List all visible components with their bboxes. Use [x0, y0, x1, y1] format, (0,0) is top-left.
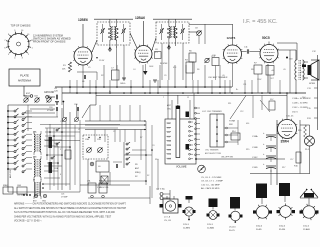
svg-text:27 MMF: 27 MMF [61, 197, 68, 199]
svg-text:C14B: C14B [252, 147, 258, 149]
svg-text:C10: 10 - 160 MMF: C10: 10 - 160 MMF [201, 184, 221, 186]
svg-text:OSC ANT TRIMMER: OSC ANT TRIMMER [208, 76, 228, 79]
svg-text:C9: C9 [164, 75, 166, 77]
svg-text:7: 7 [163, 97, 164, 99]
svg-text:ALL SWITCH SECTIONS ARE SHOWN: ALL SWITCH SECTIONS ARE SHOWN IN THE EXT… [14, 207, 127, 210]
svg-text:C1: C1 [60, 121, 62, 123]
svg-text:TOP OF CHASSIS: TOP OF CHASSIS [11, 25, 31, 28]
svg-text:I.F. = 455 KC.: I.F. = 455 KC. [243, 19, 278, 25]
svg-text:C14A: C14A [252, 135, 258, 138]
svg-text:35-W4: 35-W4 [279, 229, 286, 231]
svg-text:L2: L2 [78, 129, 80, 131]
svg-text:6: 6 [60, 174, 61, 176]
svg-text:TONE: TONE [229, 121, 236, 123]
svg-text:12BE6: 12BE6 [78, 18, 88, 22]
svg-text:LOC OSC TRIMMER: LOC OSC TRIMMER [202, 111, 222, 113]
svg-text:VOLTAGE—117 V. 50-60 ~.: VOLTAGE—117 V. 50-60 ~. [14, 220, 43, 223]
svg-text:ANT OSC: ANT OSC [9, 169, 12, 178]
svg-text:+40: +40 [271, 70, 274, 72]
svg-text:R6: R6 [197, 69, 199, 71]
svg-text:1400: 1400 [167, 150, 171, 152]
svg-text:C5: C5 [88, 67, 90, 69]
svg-text:12: 12 [187, 97, 189, 99]
svg-text:R14: R14 [232, 131, 235, 133]
svg-text:FROM FRONT OF CHASSIS: FROM FRONT OF CHASSIS [33, 41, 66, 44]
svg-text:C14B + 30 MFD: C14B + 30 MFD [292, 103, 308, 105]
svg-text:540: 540 [167, 123, 170, 125]
svg-text:50C5: 50C5 [262, 36, 270, 40]
svg-text:1600: 1600 [167, 158, 171, 160]
svg-text:C14C + 20 MFD: C14C + 20 MFD [292, 107, 308, 109]
svg-text:R2: R2 [101, 75, 103, 77]
svg-text:OSC: OSC [167, 108, 172, 110]
svg-text:ON-OFF SW: ON-OFF SW [221, 157, 233, 159]
svg-text:ANT SHUNT TRIM: ANT SHUNT TRIM [205, 152, 221, 155]
svg-text:50-B5: 50-B5 [256, 229, 262, 231]
svg-text:100K: 100K [149, 66, 154, 68]
svg-text:650: 650 [167, 128, 170, 130]
svg-text:1/2-L5: 1/2-L5 [207, 224, 214, 226]
svg-text:35W4: 35W4 [281, 140, 290, 144]
svg-text:1.5: 1.5 [155, 52, 158, 54]
svg-text:12AT6: 12AT6 [227, 36, 236, 40]
svg-text:C14D: C14D [252, 167, 258, 169]
svg-text:R15: R15 [298, 130, 301, 132]
svg-text:150 V.: 150 V. [292, 112, 299, 114]
svg-text:1 MEG VOL: 1 MEG VOL [97, 187, 110, 189]
svg-text:1/2-L6: 1/2-L6 [256, 226, 263, 228]
svg-text:C5, C6: C5, C6 [164, 220, 172, 222]
svg-text:47 MMF: 47 MMF [47, 110, 54, 112]
svg-text:OHMS PER VOLT METER, WITH S1: OHMS PER VOLT METER, WITH S1 IN A BAND P… [14, 215, 112, 218]
svg-text:C11: C11 [243, 84, 246, 86]
svg-text:ANTENNA: ANTENNA [18, 79, 31, 83]
svg-text:120V: 120V [257, 79, 262, 81]
svg-text:S1 IS IN THE PHONOGRAPH POSITI: S1 IS IN THE PHONOGRAPH POSITION. ALL DC… [14, 211, 116, 214]
svg-text:PLATE: PLATE [20, 74, 29, 78]
svg-text:C5, C6: 5 - 125 MMF: C5, C6: 5 - 125 MMF [201, 177, 222, 179]
svg-text:1250: 1250 [167, 145, 171, 147]
svg-text:1/2-L5: 1/2-L5 [183, 224, 190, 226]
svg-text:117V: 117V [211, 56, 216, 58]
svg-text:5: 5 [60, 149, 61, 151]
svg-text:ARROWS ——— ON POTENTIOMETERS A: ARROWS ——— ON POTENTIOMETERS AND SWITCHE… [14, 203, 127, 206]
svg-text:OSC TRIMMER: OSC TRIMMER [205, 150, 219, 152]
svg-text:C18: C18 [289, 59, 292, 61]
svg-text:R17: R17 [282, 167, 285, 169]
svg-text:R11: R11 [228, 103, 231, 105]
svg-text:R10: R10 [155, 159, 158, 161]
svg-text:800: 800 [167, 132, 170, 134]
svg-text:C3: C3 [152, 145, 154, 147]
svg-text:12-BA6: 12-BA6 [207, 226, 215, 229]
svg-text:R8: R8 [251, 69, 253, 71]
svg-text:50-C5: 50-C5 [229, 230, 236, 232]
svg-text:R15: R15 [246, 149, 249, 151]
svg-text:12-BE6: 12-BE6 [183, 227, 191, 229]
svg-text:.05: .05 [283, 69, 286, 71]
svg-text:12BA6: 12BA6 [135, 16, 145, 20]
svg-text:C16 .05: C16 .05 [286, 116, 294, 118]
svg-text:12-AV6: 12-AV6 [303, 228, 311, 231]
svg-text:1550: 1550 [167, 154, 171, 156]
svg-text:S2: S2 [147, 175, 149, 177]
svg-text:C14C: C14C [252, 157, 258, 159]
svg-text:C6: C6 [82, 81, 84, 83]
svg-text:1/2-L6: 1/2-L6 [303, 226, 310, 228]
svg-text:C2: C2 [113, 131, 115, 133]
svg-text:GND: GND [42, 201, 47, 203]
svg-text:950: 950 [167, 136, 170, 138]
svg-text:VOLUME: VOLUME [176, 166, 187, 169]
svg-text:1100: 1100 [167, 141, 171, 143]
svg-text:450: 450 [246, 123, 249, 125]
svg-text:1/2-L6: 1/2-L6 [279, 226, 286, 228]
svg-text:FREQ: FREQ [3, 185, 9, 187]
svg-text:C14A + 40 MFD: C14A + 40 MFD [292, 97, 308, 100]
svg-text:L7, L8: L7, L8 [164, 217, 171, 219]
svg-text:12.6V: 12.6V [99, 60, 105, 62]
svg-text:C4: C4 [133, 69, 135, 71]
svg-text:C26: C26 [61, 194, 64, 196]
svg-text:ALL CAPS IN MFD: ALL CAPS IN MFD [201, 187, 220, 190]
svg-text:.05: .05 [222, 75, 225, 77]
svg-text:SPKR: SPKR [309, 83, 315, 85]
svg-text:C12: C12 [240, 111, 243, 113]
svg-text:L9-L10: L9-L10 [229, 227, 236, 229]
svg-text:EXT: EXT [26, 93, 31, 95]
svg-text:117 V. AC: 117 V. AC [156, 188, 166, 191]
svg-text:C9, C8, C7: 1 - 8 MMF: C9, C8, C7: 1 - 8 MMF [201, 181, 224, 183]
svg-text:C17: C17 [290, 159, 293, 161]
svg-text:1MEG: 1MEG [120, 83, 126, 85]
svg-text:R4 470K: R4 470K [160, 63, 168, 65]
svg-text:FREQ: FREQ [135, 172, 141, 174]
svg-text:GROUND: GROUND [44, 92, 55, 94]
svg-text:R7: R7 [140, 137, 142, 139]
